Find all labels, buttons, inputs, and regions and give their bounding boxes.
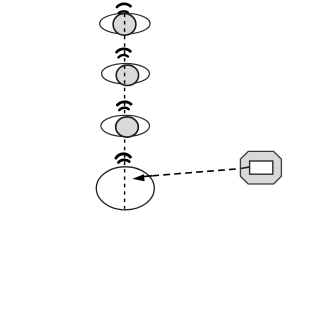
- arc A1a (top big arc): [117, 4, 131, 7]
- wire: dashed connector from octagon to arrow: [146, 169, 236, 176]
- arc A2b (second small arc): [119, 55, 128, 57]
- octagon node: [240, 151, 281, 184]
- circle S2 (second node gray sphere): [116, 65, 138, 85]
- wire: vertical dashed axis: [124, 14, 126, 209]
- ellipse E1 (top node outer): [100, 13, 150, 34]
- wire: stub inside octagon: [241, 167, 250, 169]
- ellipse E4 (large bottom ellipse): [96, 167, 154, 210]
- arc A4a (fourth big arc): [116, 154, 130, 158]
- circle S1 (top node gray sphere): [113, 14, 136, 36]
- ellipse E3 (third node outer): [101, 115, 150, 136]
- rectangle inside octagon: [250, 161, 273, 174]
- arc A3b (third small arc): [119, 108, 128, 110]
- arc A2a (second big arc): [117, 49, 131, 52]
- arc A4b (fourth small arc): [118, 160, 129, 163]
- arc A3a (third big arc): [117, 102, 131, 105]
- circle S3 (third node gray sphere, drawn over axis): [116, 117, 139, 137]
- ellipse E2 (second node outer): [102, 63, 150, 83]
- wire: short solid tail at arrow: [144, 175, 153, 178]
- arc A1b (top small arc): [119, 11, 128, 13]
- arrowhead into large ellipse: [132, 174, 144, 181]
